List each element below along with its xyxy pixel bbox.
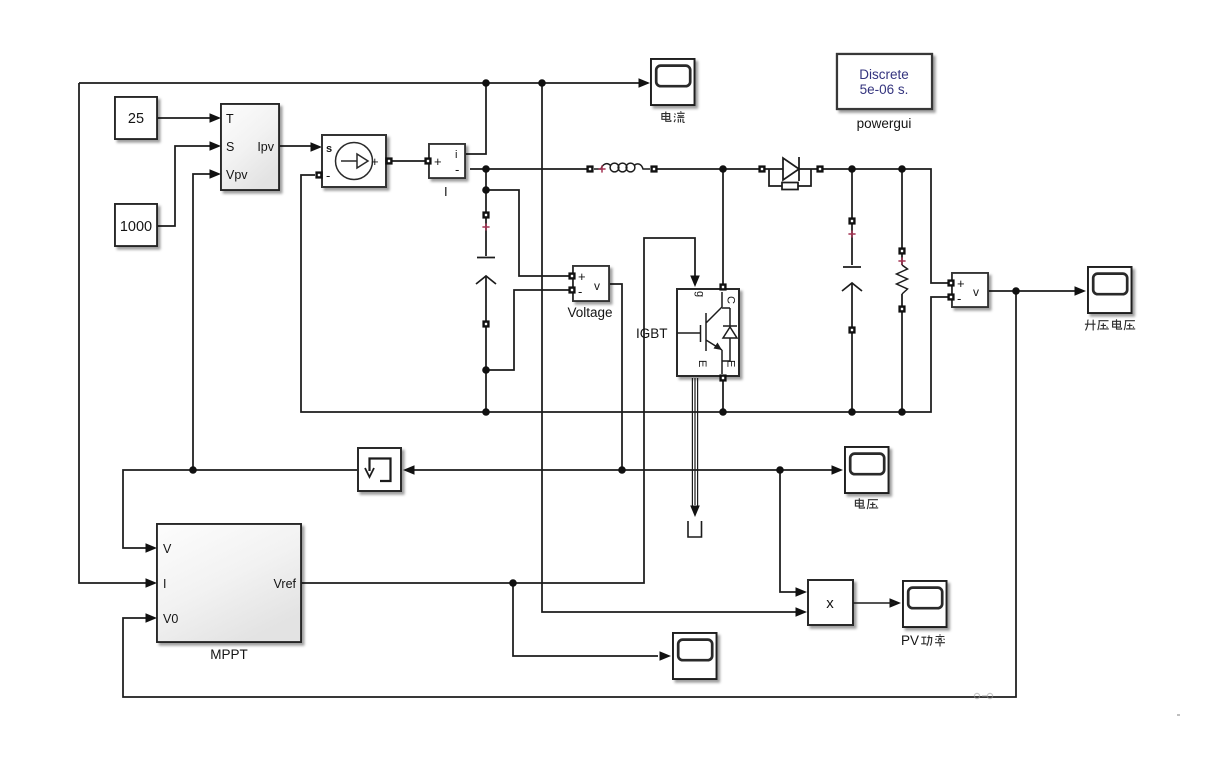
- capacitor C2 bottom port: [848, 326, 855, 333]
- label dianliu under current scope: [662, 111, 685, 122]
- svg-text:-: -: [578, 284, 582, 299]
- svg-text:PV: PV: [901, 633, 919, 648]
- svg-text:v: v: [973, 285, 979, 299]
- MPPT subsystem block: [157, 524, 301, 662]
- capacitor C1 symbol: [476, 258, 496, 285]
- wire Voltage plus link: [486, 190, 569, 276]
- svg-text:I: I: [444, 184, 448, 199]
- svg-text:1000: 1000: [120, 219, 152, 235]
- Voltage minus port: [568, 286, 575, 293]
- current source minus port: [315, 171, 322, 178]
- wire const 1000 to S: [157, 146, 211, 226]
- svg-text:V: V: [163, 542, 172, 556]
- wire voltage to product input 1: [780, 470, 797, 592]
- wire rail inductor to diode: [657, 168, 759, 170]
- diode D body: [765, 157, 817, 190]
- svg-text:5e-06 s.: 5e-06 s.: [860, 82, 909, 97]
- memory block (repeating icon): [358, 448, 401, 491]
- inductor L right port: [650, 165, 657, 172]
- scope PV power: [903, 581, 947, 627]
- scope boost voltage: [1088, 267, 1132, 313]
- wire resistor branch upper: [901, 169, 903, 265]
- svg-text:-: -: [326, 168, 330, 183]
- wire capacitor C2 branch lower: [851, 284, 853, 412]
- svg-text:-: -: [957, 291, 961, 306]
- scope dianliu (current): [651, 59, 695, 105]
- svg-text:i: i: [455, 149, 457, 161]
- svg-text:T: T: [226, 112, 234, 126]
- label boost voltage under scope: [1085, 319, 1135, 330]
- capacitor C2 red polarity: [848, 230, 855, 237]
- PV array subsystem block: [221, 104, 279, 190]
- wire bottom ground rail: [301, 175, 948, 412]
- wire Ipv to source s: [279, 145, 312, 147]
- powergui block: [837, 54, 932, 131]
- capacitor C2 symbol: [842, 267, 862, 291]
- current source output port: [385, 157, 392, 164]
- inductor L red polarity mark: [598, 165, 605, 172]
- V plus port: [947, 279, 954, 286]
- product block x: [808, 580, 853, 625]
- wire IGBT collector drop: [722, 169, 724, 285]
- output voltage measurement block V: [952, 273, 988, 307]
- wire current-signal bus top: [79, 82, 648, 84]
- current measurement block I: [429, 144, 465, 199]
- resistor R zigzag: [897, 265, 908, 294]
- svg-text:+: +: [578, 269, 586, 284]
- wire Voltage minus link: [486, 290, 569, 370]
- capacitor C1 red polarity: [482, 223, 489, 230]
- Voltage plus port: [568, 272, 575, 279]
- svg-text:powergui: powergui: [857, 116, 912, 131]
- svg-text:Vpv: Vpv: [226, 168, 248, 182]
- wire capacitor C1 branch upper: [485, 169, 487, 256]
- inductor L coil: [594, 163, 650, 172]
- constant block 1000: [115, 204, 157, 246]
- svg-text:Discrete: Discrete: [859, 67, 909, 82]
- IGBT block: [677, 289, 739, 376]
- svg-text:x: x: [826, 595, 834, 612]
- product output wire: [853, 602, 895, 604]
- resistor R red polarity: [898, 257, 905, 264]
- svg-text:S: S: [226, 140, 234, 154]
- terminator ground symbol: [688, 521, 702, 537]
- svg-text:g: g: [694, 291, 706, 297]
- diode D left port: [758, 165, 765, 172]
- arrowheads: [639, 78, 651, 88]
- wire IGBT emitter drop: [722, 381, 724, 412]
- label dianya under voltage scope: [855, 498, 878, 509]
- svg-text:C: C: [725, 296, 737, 304]
- svg-text:-: -: [455, 162, 459, 177]
- capacitor C1 bottom port: [482, 320, 489, 327]
- svg-text:I: I: [163, 577, 166, 591]
- svg-text:V0: V0: [163, 612, 178, 626]
- svg-text:s: s: [326, 143, 332, 155]
- wire memory output to Vpv and MPPT V: [123, 470, 358, 548]
- scope unnamed bottom: [673, 633, 717, 679]
- svg-text:Ipv: Ipv: [257, 140, 274, 154]
- wire Vref to scope4: [513, 583, 658, 656]
- junction node dots: [482, 79, 490, 87]
- svg-text:25: 25: [128, 111, 144, 127]
- resistor R bottom port: [898, 305, 905, 312]
- V minus port: [947, 293, 954, 300]
- resistor R top port: [898, 247, 905, 254]
- wire capacitor C2 branch upper: [851, 169, 853, 265]
- svg-text:+: +: [957, 276, 965, 291]
- svg-text:v: v: [594, 279, 600, 293]
- I meas input port: [424, 157, 431, 164]
- svg-text:Voltage: Voltage: [567, 305, 612, 320]
- diode D right port: [816, 165, 823, 172]
- svg-text:MPPT: MPPT: [210, 647, 248, 662]
- wire Vref to gate: [301, 238, 695, 583]
- controlled current source U1: [322, 135, 386, 187]
- wire source output to I meas: [392, 160, 426, 162]
- wire Vpv feedback up: [193, 174, 211, 470]
- faint watermark marks bottom right: [974, 693, 1180, 716]
- svg-text:E: E: [696, 360, 708, 367]
- wire V output feedback to MPPT V0: [123, 291, 1016, 697]
- wire resistor branch lower: [901, 294, 903, 412]
- IGBT collector port: [719, 283, 726, 290]
- svg-text:+: +: [371, 154, 379, 169]
- wire node rail from I minus to inductor: [470, 168, 587, 170]
- wire PV voltage line to memory block: [414, 469, 833, 471]
- IGBT emitter port: [719, 374, 726, 381]
- wire const 25 to T: [157, 117, 211, 119]
- wire Voltage v output down: [609, 284, 622, 470]
- svg-text:Vref: Vref: [274, 577, 297, 591]
- svg-text:+: +: [434, 154, 442, 169]
- wire capacitor C1 branch lower: [485, 277, 487, 412]
- IGBT m output multiline to terminator: [692, 378, 697, 508]
- wire V output to scope: [988, 290, 1077, 292]
- voltage measurement block Voltage: [567, 266, 612, 320]
- wire rail diode to output corner, down to V plus: [823, 169, 948, 283]
- wire i output up to bus: [465, 85, 486, 154]
- svg-text:IGBT: IGBT: [636, 326, 668, 341]
- scope dianya (voltage): [845, 447, 889, 493]
- inductor L left port: [586, 165, 593, 172]
- capacitor C1 top port: [482, 211, 489, 218]
- capacitor C2 top port: [848, 217, 855, 224]
- wire left border loop to MPPT I: [79, 83, 153, 583]
- label PV power under scope: [901, 633, 945, 648]
- wire current to product input 2: [542, 83, 797, 612]
- constant block 25: [115, 97, 157, 139]
- svg-text:E: E: [725, 360, 737, 367]
